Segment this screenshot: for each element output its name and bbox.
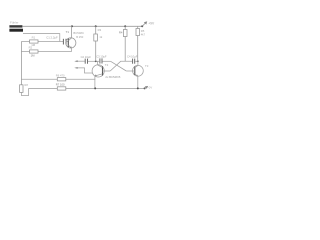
svg-text:+9V: +9V bbox=[148, 22, 155, 26]
node R3 on rail bbox=[95, 25, 97, 27]
svg-text:Fühler: Fühler bbox=[10, 20, 19, 24]
svg-text:C3 10µF: C3 10µF bbox=[96, 54, 107, 58]
node battery plus on rail bbox=[141, 25, 143, 27]
resistor R7 bbox=[57, 87, 66, 90]
transistor T1 bbox=[66, 26, 76, 51]
node T1 collector on rail bbox=[71, 25, 73, 27]
svg-text:BC548C: BC548C bbox=[73, 31, 84, 35]
wire R1 branch bbox=[21, 41, 63, 43]
transistor T3 bbox=[126, 61, 143, 88]
svg-text:C2 10µF: C2 10µF bbox=[81, 55, 92, 59]
svg-text:C1 2,2µF: C1 2,2µF bbox=[46, 35, 58, 39]
capacitor C2 bbox=[85, 59, 87, 64]
wire ground rail bbox=[29, 87, 145, 89]
svg-text:R6 470: R6 470 bbox=[56, 73, 65, 77]
svg-text:T1: T1 bbox=[66, 30, 70, 34]
node T2 emitter on rail bbox=[94, 87, 96, 89]
capacitor C3 bbox=[100, 58, 102, 63]
wire R8 bottom jog bbox=[21, 88, 28, 95]
resistor R4 bbox=[123, 30, 127, 37]
resistor R5 bbox=[136, 29, 140, 36]
svg-text:R1: R1 bbox=[32, 36, 36, 40]
node T3 emitter on rail bbox=[137, 87, 139, 89]
capacitor C1 bbox=[63, 39, 66, 45]
resistor R1 bbox=[30, 40, 39, 43]
svg-text:T2: T2 bbox=[105, 63, 109, 67]
wire +9V top rail bbox=[22, 25, 142, 27]
connection arrow to C2 bbox=[74, 60, 85, 62]
svg-text:0V: 0V bbox=[149, 86, 153, 90]
svg-text:B 250: B 250 bbox=[76, 35, 84, 39]
wire sensor bar2 to C1 branch bbox=[23, 34, 60, 42]
svg-text:T3: T3 bbox=[145, 64, 149, 68]
svg-text:R5: R5 bbox=[141, 29, 145, 33]
wire C3 to crossover bbox=[102, 60, 110, 62]
svg-text:4k7: 4k7 bbox=[141, 33, 146, 37]
svg-text:1M: 1M bbox=[31, 54, 36, 58]
transistor T2 mirrored bbox=[92, 61, 110, 88]
sensor electrode bar 1 bbox=[9, 25, 22, 27]
sensor electrode bar 2 bbox=[9, 29, 23, 32]
resistor R8 sensor chain bbox=[20, 85, 23, 93]
wire T2 base jog with arrow bbox=[74, 67, 92, 73]
wire left vertical node A bbox=[20, 42, 22, 85]
resistor R6 bbox=[57, 78, 66, 81]
svg-text:R8: R8 bbox=[24, 83, 28, 87]
wire R2 branch bbox=[21, 51, 71, 53]
wire emitter divider branch bbox=[21, 78, 95, 80]
wire crossover rising from T2 base bbox=[110, 61, 132, 71]
svg-text:R7 100: R7 100 bbox=[56, 83, 65, 87]
svg-text:2x BC548 B: 2x BC548 B bbox=[105, 75, 120, 79]
battery plus arrow bbox=[142, 22, 147, 27]
svg-text:R4: R4 bbox=[119, 31, 123, 35]
battery minus arrow bbox=[145, 86, 148, 88]
node battery minus on rail bbox=[144, 87, 146, 89]
node R3 C2 C3 junction bbox=[95, 60, 97, 62]
wire C4 to T3 collector node bbox=[135, 60, 138, 62]
capacitor C4 bbox=[133, 59, 135, 64]
wire C2 to collector node bbox=[88, 60, 99, 62]
resistor R2 bbox=[30, 50, 39, 53]
node T3 collector bbox=[137, 60, 139, 62]
wire crossover falling to T3 base bbox=[111, 61, 127, 71]
node R4 on rail bbox=[124, 25, 126, 27]
wire C1 to T1 base bbox=[66, 41, 68, 43]
resistor R3 bbox=[94, 34, 98, 41]
svg-text:R3: R3 bbox=[98, 28, 102, 32]
svg-text:R2: R2 bbox=[29, 46, 33, 50]
svg-text:C4 10µF: C4 10µF bbox=[127, 55, 138, 59]
